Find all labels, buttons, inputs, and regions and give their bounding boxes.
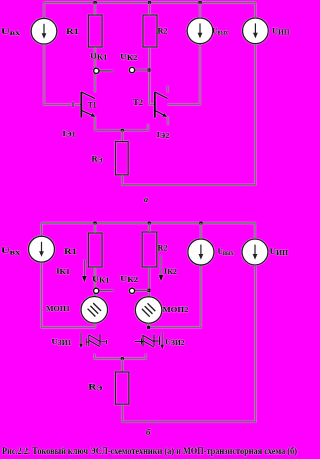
svg-text:RЭ: RЭ (91, 153, 102, 164)
wire MOP2 source to CS3b (149, 265, 201, 327)
current source UIP bottom (242, 239, 268, 265)
resistor RE bottom-circuit (115, 372, 128, 404)
wire T1 emitter down (94, 116, 96, 130)
wire R1 bottom (94, 47, 96, 92)
svg-text:МОП2: МОП2 (163, 305, 189, 314)
wire CS1 bottom to T1 base (44, 44, 71, 104)
MOSFET MOP1 (81, 297, 108, 324)
svg-text:IК2: IК2 (164, 266, 178, 276)
svg-text:UЗИ2: UЗИ2 (165, 337, 185, 347)
svg-text:UК1: UК1 (90, 52, 108, 62)
node rail-R1 (94, 1, 97, 4)
svg-text:а: а (144, 195, 148, 204)
wire top rail bottom-circuit (42, 222, 256, 224)
node rail-R2 (148, 1, 151, 4)
node R2b-terminal (147, 289, 150, 292)
wire top rail (44, 2, 256, 4)
svg-text:UК1: UК1 (92, 275, 110, 285)
node emitter-RE (121, 129, 124, 132)
node R2-terminal (147, 68, 150, 71)
wire REb bottom rail (122, 265, 255, 422)
transistor T1 (80, 92, 82, 118)
node rail2-CS3 (199, 222, 202, 225)
MOSFET MOP2 (135, 297, 162, 324)
arrow UZI1 (80, 332, 82, 344)
svg-text:R1: R1 (66, 26, 79, 36)
svg-text:IЭ2: IЭ2 (157, 130, 170, 140)
svg-text:UЗИ1: UЗИ1 (52, 337, 73, 347)
svg-text:МОП1: МОП1 (46, 304, 70, 313)
svg-text:Uвх: Uвх (1, 26, 21, 37)
terminal UK1 bottom (99, 289, 114, 291)
wire RE bottom rail (122, 44, 255, 185)
svg-text:Uвых: Uвых (218, 247, 234, 257)
wire CS1 top (43, 3, 45, 19)
wire CS3 to T2 (168, 44, 200, 105)
resistor R1 top (88, 15, 102, 47)
svg-text:UИП: UИП (270, 247, 289, 257)
node MOP2 source (147, 326, 150, 329)
svg-text:T2: T2 (133, 98, 143, 107)
nonlinear element 1 (85, 338, 87, 346)
svg-text:R1: R1 (64, 246, 77, 256)
current source Uvyx bottom (188, 239, 214, 265)
wire MOP1 source (42, 262, 96, 327)
node rail-CS3 (199, 1, 202, 4)
wire CS1b top (41, 223, 43, 236)
node rail2-R1 (94, 222, 97, 225)
wire R2b bottom (148, 267, 150, 297)
svg-text:Рис.2.2. Токовый ключ ЭСЛ-схем: Рис.2.2. Токовый ключ ЭСЛ-схемотехники (… (2, 446, 297, 457)
svg-text:UИП: UИП (272, 26, 290, 36)
resistor R2 bottom-circuit (142, 232, 157, 267)
svg-text:T1: T1 (88, 101, 97, 110)
svg-text:IЭ1: IЭ1 (62, 129, 76, 139)
svg-text:IК1: IК1 (56, 266, 71, 276)
wire REb top (121, 359, 123, 373)
terminal UK1 (99, 70, 114, 72)
svg-text:б: б (146, 427, 151, 437)
svg-text:Uвых: Uвых (213, 26, 229, 36)
resistor RE top-circuit (116, 142, 129, 175)
svg-text:Uвх: Uвх (1, 245, 21, 256)
svg-text:R2: R2 (158, 26, 168, 36)
arrow UZI2 (161, 333, 163, 346)
wire RE top (121, 130, 123, 141)
resistor R1 bottom-circuit (88, 233, 102, 267)
current source UIP top (243, 18, 269, 44)
terminal UK2 bottom (135, 289, 150, 291)
current source I1 bottom (29, 236, 55, 262)
svg-text:UК2: UК2 (120, 52, 138, 62)
terminal UK2 (135, 69, 150, 71)
arrow IK2 (160, 255, 162, 277)
stray dot (128, 56, 130, 58)
arrow IK1 (83, 260, 85, 278)
current source I1 top (31, 18, 57, 44)
tick on base wire (72, 102, 74, 107)
svg-text:R2: R2 (158, 243, 168, 253)
wire emitter bus (95, 124, 148, 130)
transistor T2 (154, 92, 156, 118)
resistor R2 top (143, 15, 157, 47)
wire R1b bottom (94, 267, 96, 297)
node bus-RE (121, 357, 124, 360)
svg-text:UК2: UК2 (120, 274, 139, 284)
svg-text:RЭ: RЭ (88, 382, 102, 393)
wire R2 bottom to T2 base (150, 47, 155, 104)
wire source bus (95, 354, 146, 359)
node rail2-R2 (148, 222, 151, 225)
nonlinear element 2 (135, 341, 143, 343)
current source Uvyx top (187, 18, 213, 44)
